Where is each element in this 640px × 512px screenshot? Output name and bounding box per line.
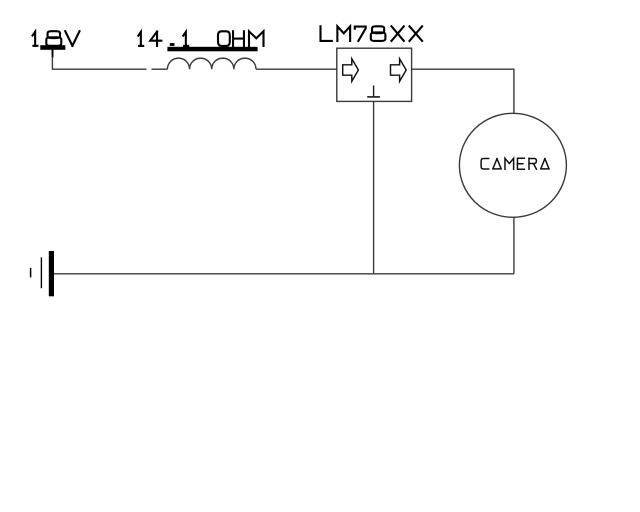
ground symbol (3 bars, pointing left) (31, 251, 54, 296)
wire: ground bus (54, 273, 514, 275)
wire: node to inductor left pin (152, 68, 168, 70)
wire: regulator OUT to camera top (412, 69, 514, 113)
wire: inductor right pin to regulator IN (256, 68, 337, 70)
label 14.1 OHM (138, 31, 263, 46)
regulator GND pin symbol (367, 86, 380, 97)
regulator OUT pin arrow (391, 59, 407, 82)
inductor 14.1 OHM (4 half-loops) (167, 58, 256, 69)
camera (circle symbol) (459, 113, 566, 217)
power terminal +18V (bar symbol) (40, 45, 65, 50)
label underline bar (inductor span) (167, 47, 257, 52)
voltage regulator LM78XX (box) (337, 48, 412, 101)
wire: regulator GND stem (373, 101, 375, 273)
label 18V (33, 31, 80, 46)
wire: 18V terminal stem to node (52, 50, 54, 58)
regulator IN pin arrow (343, 59, 359, 82)
label LM78XX (321, 26, 423, 41)
label CAMERA (481, 158, 549, 169)
wire: camera bottom lead (513, 217, 515, 273)
